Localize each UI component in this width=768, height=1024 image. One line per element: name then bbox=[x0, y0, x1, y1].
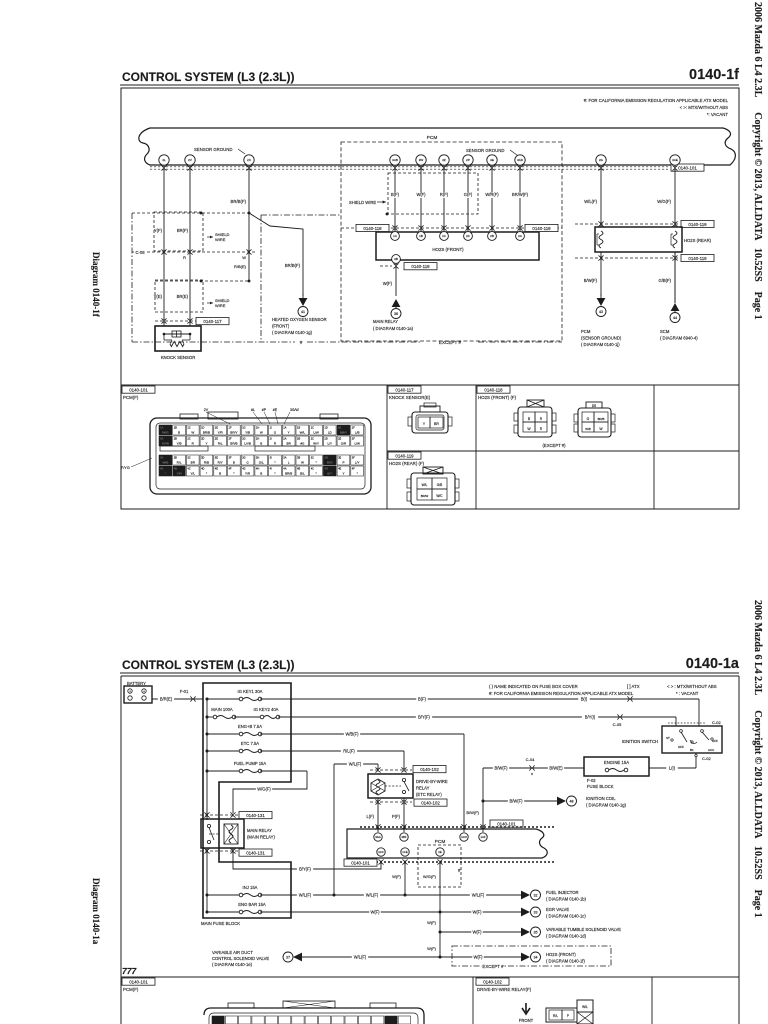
svg-text:G(F): G(F) bbox=[464, 192, 473, 197]
connector run line above bottom pipe bbox=[360, 826, 556, 828]
svg-text:W: W bbox=[260, 431, 263, 435]
svg-text:2C: 2C bbox=[311, 437, 314, 441]
label SHIELD WIRE 2 bbox=[207, 302, 213, 304]
svg-text:W/B: W/B bbox=[162, 461, 168, 465]
DBW relay contact bbox=[402, 778, 405, 781]
row variable tumble bbox=[440, 931, 521, 933]
dashed shield link line y213 bbox=[132, 212, 249, 214]
svg-text:CONTROL SOLENOID VALVE: CONTROL SOLENOID VALVE bbox=[212, 956, 269, 961]
label box 0140-117 at knock sensor bbox=[196, 318, 229, 325]
svg-text:KNOCK SENSOR(E): KNOCK SENSOR(E) bbox=[389, 395, 431, 400]
svg-text:n: n bbox=[531, 772, 533, 776]
PCM connector shell bbox=[150, 418, 371, 494]
wire W/L to HO2S rear bbox=[600, 165, 602, 227]
svg-text:1CE: 1CE bbox=[402, 850, 408, 854]
svg-text:0140-117: 0140-117 bbox=[395, 387, 414, 392]
PCM dashed box top bbox=[341, 142, 562, 341]
connector tick under pin 2P bbox=[465, 165, 470, 167]
svg-text:0140-118: 0140-118 bbox=[363, 226, 382, 231]
svg-text:R: R bbox=[183, 255, 186, 260]
svg-text:1B: 1B bbox=[174, 426, 177, 430]
svg-text:3W: 3W bbox=[419, 158, 424, 162]
svg-text:( ) NAME INDICATED ON FUSE BOX: ( ) NAME INDICATED ON FUSE BOX COVER bbox=[489, 684, 578, 689]
svg-text:MAIN FUSE BLOCK: MAIN FUSE BLOCK bbox=[201, 921, 240, 926]
PCM connector drawing bottom partial bbox=[204, 1008, 424, 1024]
svg-text:IG KEY2 40A: IG KEY2 40A bbox=[254, 707, 279, 712]
wire R/L down to DBW relay bbox=[403, 751, 405, 770]
svg-text:0140-131: 0140-131 bbox=[246, 850, 265, 855]
pin 3AE on PCM pipe bbox=[670, 155, 680, 165]
svg-text:2A: 2A bbox=[518, 234, 522, 238]
svg-text:W/B(F): W/B(F) bbox=[346, 732, 360, 737]
connector line C-08 bbox=[132, 251, 256, 253]
svg-text:W/L(F): W/L(F) bbox=[366, 893, 379, 898]
svg-text:0140-101: 0140-101 bbox=[129, 387, 148, 392]
svg-text:0140-118: 0140-118 bbox=[411, 264, 430, 269]
svg-text:2B: 2B bbox=[174, 437, 177, 441]
svg-text:WIRE: WIRE bbox=[215, 303, 226, 308]
pins on bottom pipe bottom bbox=[377, 848, 385, 856]
wire B/W down to PCM ground bbox=[600, 252, 602, 296]
connector dashes below main relay bbox=[200, 850, 240, 852]
svg-text:CONTROL SYSTEM (L3 (2.3L)): CONTROL SYSTEM (L3 (2.3L)) bbox=[122, 70, 294, 84]
svg-text:B(F): B(F) bbox=[391, 192, 400, 197]
label B(I) bbox=[578, 697, 590, 703]
wire BR/B to heated oxygen sensor bbox=[249, 213, 303, 296]
svg-text:B: B bbox=[233, 461, 235, 465]
svg-text:34: 34 bbox=[534, 956, 538, 960]
svg-text:3E: 3E bbox=[490, 158, 494, 162]
PCM harness pipe top bbox=[139, 128, 736, 165]
ticks above bottom pipe bbox=[375, 824, 380, 826]
svg-text:2006 Mazda 6 L4 2.3L Copy: 2006 Mazda 6 L4 2.3L Copyright © 2013, A… bbox=[752, 2, 763, 320]
svg-text:1A: 1A bbox=[393, 234, 397, 238]
connector tick under pin 3E bbox=[489, 165, 494, 167]
svg-text:C-02: C-02 bbox=[712, 720, 721, 725]
svg-text:R/L(F): R/L(F) bbox=[343, 749, 355, 754]
svg-text:35: 35 bbox=[534, 931, 538, 935]
fuse ENG+B 7.5A bbox=[207, 733, 241, 735]
svg-text:0140-119: 0140-119 bbox=[688, 222, 707, 227]
svg-text:G/B: G/B bbox=[437, 483, 443, 487]
svg-text:B/W(E): B/W(E) bbox=[549, 766, 563, 771]
resistor element HO2S rear right bbox=[673, 231, 677, 248]
fuse MAIN 100A and IG KEY2 40A bbox=[207, 716, 215, 718]
wire W/G to main relay bbox=[233, 771, 307, 813]
connector tick under pin 2L bbox=[161, 165, 166, 167]
tick 0140-118 B(F) bbox=[392, 225, 397, 227]
svg-text:#E: #E bbox=[273, 408, 278, 412]
wire variable air duct bbox=[302, 956, 440, 958]
svg-text:( DIAGRAM 0140-1j): ( DIAGRAM 0140-1j) bbox=[581, 342, 620, 347]
svg-text:0140-101: 0140-101 bbox=[129, 979, 148, 984]
svg-text:L/VB: L/VB bbox=[244, 442, 251, 446]
tick knock Y bbox=[161, 318, 166, 320]
svg-text:IG KEY1 30A: IG KEY1 30A bbox=[238, 689, 263, 694]
svg-text:4B: 4B bbox=[174, 467, 177, 471]
wire G/B down to SCM bbox=[674, 252, 676, 303]
svg-text:4F: 4F bbox=[352, 467, 355, 471]
main relay box bbox=[201, 819, 244, 848]
svg-text:B/W(F): B/W(F) bbox=[584, 278, 598, 283]
svg-text:+: + bbox=[143, 690, 145, 694]
arrow SCM 44 bbox=[671, 303, 680, 311]
svg-text:1I: 1I bbox=[270, 426, 272, 430]
svg-text:2G: 2G bbox=[242, 437, 245, 441]
connector tick under pin 3AD bbox=[517, 165, 522, 167]
svg-text:#G: #G bbox=[300, 442, 305, 446]
connector dashes HO2S rear bottom bbox=[575, 257, 680, 259]
svg-text:SENSOR GROUND: SENSOR GROUND bbox=[466, 148, 504, 153]
label SHIELD WIRE 1 bbox=[207, 236, 213, 238]
svg-text:48: 48 bbox=[570, 800, 574, 804]
svg-text:FUEL PUMP 15A: FUEL PUMP 15A bbox=[234, 761, 267, 766]
connector run line below bottom pipe bbox=[348, 861, 556, 863]
engine fuse box bbox=[584, 757, 649, 776]
svg-text:(MAIN RELAY): (MAIN RELAY) bbox=[247, 835, 275, 840]
junction dot shield drain bbox=[386, 213, 389, 216]
svg-text:HO2S (FRONT): HO2S (FRONT) bbox=[546, 952, 576, 957]
svg-text:L/Y: L/Y bbox=[355, 461, 360, 465]
svg-text:B: B bbox=[178, 431, 180, 435]
svg-text:L(F): L(F) bbox=[366, 814, 374, 819]
svg-text:3F: 3F bbox=[352, 456, 355, 460]
front arrow bottom table bbox=[522, 1003, 530, 1014]
svg-text:G: G bbox=[587, 417, 590, 421]
pin 3W on PCM pipe bbox=[416, 155, 426, 165]
svg-text:B: B bbox=[260, 472, 262, 476]
svg-text:R/B(E): R/B(E) bbox=[234, 264, 247, 269]
svg-text:PCM: PCM bbox=[427, 135, 438, 141]
svg-text:2E: 2E bbox=[215, 437, 218, 441]
wire Y from pin 2L bbox=[163, 165, 165, 326]
svg-text:(ETC RELAY): (ETC RELAY) bbox=[416, 792, 442, 797]
svg-text:KNOCK SENSOR: KNOCK SENSOR bbox=[161, 355, 196, 360]
wire BR/B from pin 2X bbox=[248, 165, 250, 281]
svg-text:0140-101: 0140-101 bbox=[678, 165, 697, 170]
svg-text:*: VACANT: *: VACANT bbox=[707, 112, 729, 117]
svg-text:( DIAGRAM 0140-1f): ( DIAGRAM 0140-1f) bbox=[546, 959, 585, 964]
svg-text:VARIABLE AIR DUCT: VARIABLE AIR DUCT bbox=[212, 950, 253, 955]
svg-text:BR(F): BR(F) bbox=[177, 228, 189, 233]
svg-text:BR/B(F): BR/B(F) bbox=[230, 199, 246, 204]
label W(F) vt bbox=[471, 930, 483, 936]
svg-text:0140-131: 0140-131 bbox=[246, 813, 265, 818]
row HO2S front bbox=[440, 956, 521, 958]
label R(F) bbox=[438, 193, 450, 199]
svg-text:P: P bbox=[567, 1014, 569, 1018]
PCM dashed box bottom bbox=[418, 845, 461, 887]
svg-text:#: FOR CALIFORNIA EMISSION REG: #: FOR CALIFORNIA EMISSION REGULATION AP… bbox=[489, 691, 634, 696]
svg-text:3AB: 3AB bbox=[392, 158, 398, 162]
wire W/L down to DBW relay coil bbox=[377, 764, 379, 770]
svg-text:Y: Y bbox=[288, 431, 290, 435]
svg-text:3S/W: 3S/W bbox=[290, 408, 299, 412]
svg-text:B/W(F): B/W(F) bbox=[466, 810, 479, 815]
svg-text:1B: 1B bbox=[297, 426, 300, 430]
svg-text:4I: 4I bbox=[270, 467, 272, 471]
svg-text:HO2S (FRONT) (F): HO2S (FRONT) (F) bbox=[478, 395, 517, 400]
table row divider bbox=[387, 450, 739, 452]
svg-text:2P: 2P bbox=[466, 158, 470, 162]
wire W(F) to main relay bbox=[395, 263, 397, 296]
label B(F) bbox=[389, 193, 401, 199]
svg-text:P: P bbox=[342, 461, 344, 465]
svg-text:W: W bbox=[242, 255, 246, 260]
HO2S rear connector drawing bbox=[411, 473, 455, 505]
wire to ignition coil bbox=[483, 800, 557, 802]
svg-text:BR/B(F): BR/B(F) bbox=[285, 263, 301, 268]
wire W/G from pin 2E bbox=[439, 862, 441, 912]
svg-text:MAIN 100A: MAIN 100A bbox=[211, 707, 233, 712]
svg-text:PCM: PCM bbox=[435, 839, 446, 845]
main relay coil bbox=[224, 824, 238, 844]
label W/L(F) right bbox=[470, 893, 486, 899]
ticks below bottom pipe bbox=[378, 859, 383, 861]
label box 0140-102 bottom table bbox=[476, 978, 509, 985]
junction dot battery bus bbox=[206, 698, 209, 701]
svg-text:W/C: W/C bbox=[436, 494, 443, 498]
svg-text:( DIAGRAM 0140-1a): ( DIAGRAM 0140-1a) bbox=[373, 326, 414, 331]
svg-text:1D: 1D bbox=[324, 426, 327, 430]
arrow variable tumble 35 bbox=[521, 928, 530, 937]
label B/W(E) bbox=[548, 766, 564, 772]
pin 1B HO2S front bbox=[417, 232, 426, 241]
svg-text:3E: 3E bbox=[338, 456, 341, 460]
svg-text:0140-118: 0140-118 bbox=[532, 226, 551, 231]
svg-text:P(F): P(F) bbox=[392, 814, 401, 819]
HO2S front connector drawing 2 bbox=[578, 408, 611, 437]
label box 0140-101 top right bbox=[671, 164, 704, 171]
svg-text:VARIABLE TUMBLE SOLENOID VALVE: VARIABLE TUMBLE SOLENOID VALVE bbox=[546, 927, 621, 932]
label B/Y(F) bbox=[297, 867, 313, 873]
label L(I) bbox=[666, 766, 678, 772]
pins on bottom pipe top bbox=[374, 833, 382, 841]
svg-text:1C: 1C bbox=[311, 426, 314, 430]
svg-text:ENG BAR 15A: ENG BAR 15A bbox=[238, 902, 266, 907]
tick row1 bbox=[627, 696, 629, 701]
svg-text:4C: 4C bbox=[187, 467, 190, 471]
arrow heated oxygen sensor terminal 41 bbox=[302, 294, 304, 300]
svg-text:Y(E): Y(E) bbox=[154, 294, 163, 299]
dashed link y281 bbox=[155, 280, 249, 282]
wire down to variable tumble bbox=[439, 912, 441, 932]
svg-text:ENG+B 7.5A: ENG+B 7.5A bbox=[238, 724, 262, 729]
svg-text:BR: BR bbox=[287, 442, 292, 446]
svg-text:0140-102: 0140-102 bbox=[420, 767, 439, 772]
label W/L(F) riser bbox=[347, 762, 363, 768]
drive-by-wire relay box bbox=[368, 774, 413, 798]
svg-text:< > : MTX/WITHOUT ABS: < > : MTX/WITHOUT ABS bbox=[667, 684, 717, 689]
svg-text:4B: 4B bbox=[297, 467, 300, 471]
svg-text:G/B(F): G/B(F) bbox=[658, 278, 671, 283]
battery box bbox=[124, 686, 152, 703]
wire row2 down to ignition switch bbox=[675, 717, 677, 726]
fuse ETC 7.5A bbox=[207, 750, 241, 752]
svg-text:3B: 3B bbox=[174, 456, 177, 460]
label B/Y(F) bbox=[416, 715, 432, 721]
svg-text:F/YG: F/YG bbox=[121, 466, 130, 470]
svg-text:B(I): B(I) bbox=[581, 697, 588, 702]
svg-text:( DIAGRAM 0140-1g): ( DIAGRAM 0140-1g) bbox=[586, 803, 627, 808]
svg-text:C-02: C-02 bbox=[702, 756, 711, 761]
tick C-08 wire BRB bbox=[246, 249, 251, 251]
svg-text:PCM(F): PCM(F) bbox=[123, 395, 139, 400]
svg-text:3F: 3F bbox=[229, 456, 232, 460]
pin 2A HO2S front bbox=[516, 232, 525, 241]
main relay contact bbox=[207, 824, 210, 827]
svg-text:( DIAGRAM 0140-1g): ( DIAGRAM 0140-1g) bbox=[272, 330, 313, 335]
svg-text:W/L(F): W/L(F) bbox=[354, 955, 367, 960]
label L(F) bbox=[363, 815, 375, 821]
left bus wire bbox=[206, 699, 208, 820]
svg-text:1E: 1E bbox=[338, 426, 341, 430]
svg-text:IGNITION COIL: IGNITION COIL bbox=[586, 796, 616, 801]
svg-text:BR(E): BR(E) bbox=[177, 294, 189, 299]
svg-text:#L: #L bbox=[251, 408, 255, 412]
tick 0140-118 R(F) bbox=[441, 225, 446, 227]
svg-text:B/Y: B/Y bbox=[327, 472, 332, 476]
svg-text:D5: D5 bbox=[592, 404, 596, 408]
svg-text:3A: 3A bbox=[283, 456, 286, 460]
svg-text:PCM: PCM bbox=[581, 329, 591, 334]
knock sensor connector drawing bbox=[412, 412, 448, 433]
svg-text:2V: 2V bbox=[188, 158, 192, 162]
svg-text:INJ 15A: INJ 15A bbox=[243, 885, 258, 890]
bottom table top line bbox=[121, 976, 739, 978]
svg-text:L/W: L/W bbox=[354, 442, 360, 446]
svg-text:W/G(F): W/G(F) bbox=[657, 199, 671, 204]
svg-text:1F: 1F bbox=[229, 426, 232, 430]
tick 0140-118 G(F) bbox=[465, 225, 470, 227]
label B/Y(I) bbox=[582, 715, 598, 721]
svg-text:3C: 3C bbox=[187, 456, 190, 460]
svg-text:3B: 3B bbox=[394, 257, 398, 261]
wire W/B down to PCM pin bbox=[463, 734, 465, 832]
svg-text:DRIVE-BY-WIRE RELAY(F): DRIVE-BY-WIRE RELAY(F) bbox=[477, 987, 532, 992]
label W(F) ho2s bbox=[472, 955, 484, 961]
label box 0140-118 bottom bbox=[404, 263, 437, 270]
svg-text:2I: 2I bbox=[270, 437, 272, 441]
main fuse block outline bbox=[203, 683, 291, 918]
svg-text:W: W bbox=[301, 461, 304, 465]
svg-text:W(F): W(F) bbox=[370, 910, 380, 915]
fuse INJ 15A bbox=[207, 894, 241, 896]
svg-text:BR/B: BR/B bbox=[230, 442, 237, 446]
svg-text:(EXCEPT #): (EXCEPT #) bbox=[543, 443, 567, 448]
ignition switch box bbox=[662, 726, 722, 753]
ignition switch contacts bbox=[680, 730, 683, 733]
svg-text:FRONT: FRONT bbox=[519, 1018, 534, 1023]
label B/W(F) coil bbox=[508, 799, 524, 805]
svg-text:BR/B: BR/B bbox=[285, 472, 292, 476]
connector tick under pin 2V bbox=[187, 165, 192, 167]
svg-text:3H: 3H bbox=[256, 456, 259, 460]
wire B/W down bbox=[482, 768, 484, 832]
svg-text:44: 44 bbox=[673, 316, 677, 320]
svg-text:W(F): W(F) bbox=[473, 955, 483, 960]
arrow variable air duct 37 bbox=[283, 952, 293, 962]
svg-text:W/G(F): W/G(F) bbox=[257, 787, 271, 792]
svg-text:1A: 1A bbox=[283, 426, 286, 430]
svg-text:HO2S (FRONT): HO2S (FRONT) bbox=[432, 247, 464, 252]
pin 3E on PCM pipe bbox=[487, 155, 497, 165]
svg-text:#: # bbox=[300, 340, 303, 345]
svg-text:Y/B: Y/B bbox=[245, 431, 250, 435]
svg-text:777: 777 bbox=[122, 966, 137, 976]
tick 0140-118 W/R(F) bbox=[489, 225, 494, 227]
svg-text:C-08: C-08 bbox=[135, 250, 145, 255]
svg-text:SHIELD WIRE: SHIELD WIRE bbox=[349, 200, 376, 205]
svg-text:1E: 1E bbox=[215, 426, 218, 430]
svg-text:R(F): R(F) bbox=[440, 192, 449, 197]
wire row1 down to ignition switch bbox=[698, 699, 700, 726]
svg-text:ETC 7.5A: ETC 7.5A bbox=[241, 741, 259, 746]
svg-text:W(F): W(F) bbox=[427, 920, 437, 925]
label box 0140-131 upper bbox=[239, 812, 272, 819]
knock sensor internals bbox=[164, 333, 190, 335]
table divider col2 bbox=[475, 385, 477, 509]
wire BR/W(F) HO2S front bbox=[519, 165, 521, 231]
pin 2B HO2S front bbox=[488, 232, 497, 241]
tick 0140-118 BR/W(F) bbox=[517, 225, 522, 227]
label R/L(F) bbox=[341, 749, 357, 755]
svg-text:37: 37 bbox=[286, 956, 290, 960]
pin 1A HO2S front bbox=[391, 232, 400, 241]
junction dot BR/B bottom bbox=[248, 280, 251, 283]
label box 0140-102 lower bbox=[414, 799, 447, 806]
wire main relay B/Y out bbox=[233, 848, 381, 869]
svg-text:3C: 3C bbox=[311, 456, 314, 460]
svg-text:B1: B1 bbox=[690, 748, 694, 752]
pin 2C HO2S front bbox=[464, 232, 473, 241]
svg-text:#P: #P bbox=[262, 408, 267, 412]
HO2S rear unit box bbox=[595, 227, 682, 252]
svg-text:4E: 4E bbox=[215, 467, 218, 471]
svg-text:W(F): W(F) bbox=[416, 192, 426, 197]
svg-text:HO2S (REAR): HO2S (REAR) bbox=[684, 238, 712, 243]
svg-text:EXCEPT #: EXCEPT # bbox=[439, 340, 462, 345]
svg-text:3E: 3E bbox=[215, 456, 218, 460]
svg-text:BR: BR bbox=[434, 422, 439, 426]
arrow HO2S front 34 bbox=[521, 953, 530, 962]
svg-text:2Z: 2Z bbox=[442, 158, 446, 162]
svg-text:W(F): W(F) bbox=[472, 930, 482, 935]
svg-text:OFF: OFF bbox=[712, 739, 718, 743]
svg-text:OFF: OFF bbox=[678, 745, 684, 749]
label B/R(E) bbox=[158, 697, 174, 703]
junction dot shield 2 left bbox=[200, 280, 203, 283]
svg-text:1B: 1B bbox=[419, 234, 423, 238]
svg-text:W/R(F): W/R(F) bbox=[485, 192, 499, 197]
svg-text:W: W bbox=[191, 431, 194, 435]
svg-text:Y/R: Y/R bbox=[218, 431, 224, 435]
svg-text:4D: 4D bbox=[324, 467, 327, 471]
svg-text:3D: 3D bbox=[201, 456, 204, 460]
svg-text:Diagram 0140-1f: Diagram 0140-1f bbox=[91, 252, 101, 318]
svg-text:R/L: R/L bbox=[553, 1014, 558, 1018]
svg-text:0140-1a: 0140-1a bbox=[686, 656, 740, 672]
svg-text:W/L(F): W/L(F) bbox=[299, 893, 312, 898]
label P(F) bbox=[389, 815, 401, 821]
svg-text:36: 36 bbox=[394, 312, 398, 316]
bottom table divider 1 bbox=[472, 977, 474, 1024]
arrow main relay terminal 36 bbox=[392, 299, 401, 307]
label box 0140-119 table bbox=[388, 452, 421, 459]
arrow EGR valve 33 bbox=[521, 908, 530, 917]
svg-text:0140-101: 0140-101 bbox=[351, 860, 370, 865]
svg-text:0140-119: 0140-119 bbox=[395, 453, 414, 458]
